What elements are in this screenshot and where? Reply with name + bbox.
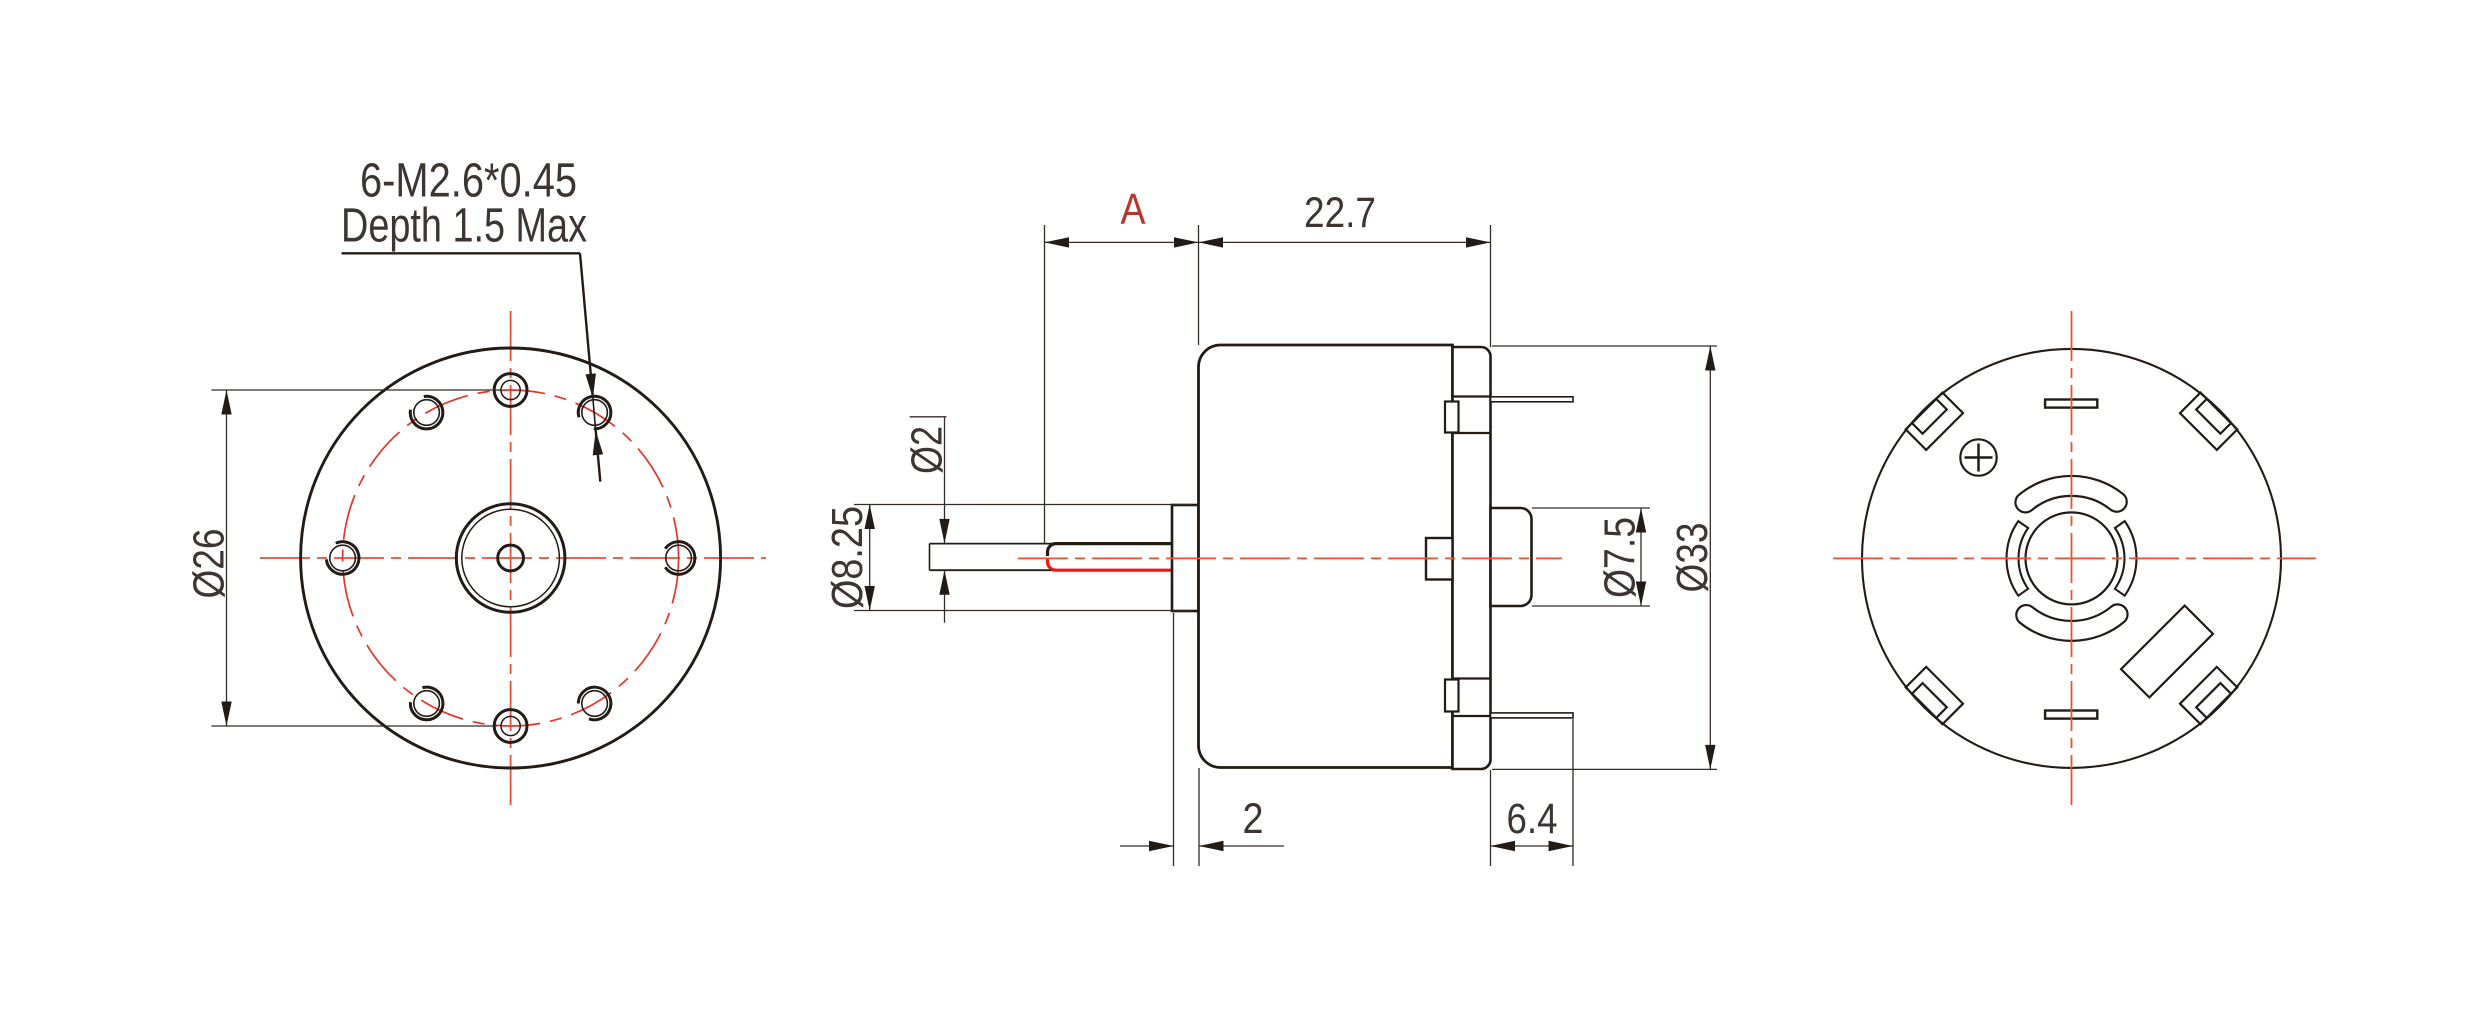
brush window slot top [2015, 476, 2126, 512]
dim 6.4 extension right [1572, 719, 1574, 866]
front hub inner circle [462, 509, 560, 607]
dim 2 dimension line right [1199, 845, 1284, 847]
dim Ø26 dimension line [226, 390, 228, 726]
shaft circle [498, 545, 524, 571]
dim Ø7.5 dimension line [1640, 508, 1642, 606]
top pilot hole [494, 374, 527, 407]
brush window slot bottom [2016, 604, 2127, 640]
polarity plus marker [1960, 439, 1996, 475]
svg-text:Ø7.5: Ø7.5 [1596, 517, 1645, 598]
stator clip at 45 deg [2180, 393, 2237, 450]
tapped hole M2.6 at 120 deg [410, 396, 443, 429]
rear view vertical center line [2071, 311, 2073, 807]
dim Ø7.5 extension top [1532, 507, 1650, 509]
terminal window rectangle [2121, 606, 2213, 698]
dim 6.4 dimension line [1491, 845, 1574, 847]
cap clip tab top [1445, 402, 1459, 433]
cap clip tab bottom [1445, 680, 1459, 712]
tapped hole M2.6 at 0 deg [665, 542, 695, 575]
side view horizontal center line [1018, 557, 1562, 559]
vent slot bottom [2045, 711, 2097, 719]
svg-text:Ø33: Ø33 [1668, 523, 1717, 593]
bearing retainer arc right [2115, 521, 2137, 596]
rear end cap [1453, 347, 1491, 769]
rear cover outline circle [1862, 349, 2281, 768]
motor front outline circle Ø33 [301, 348, 721, 768]
shaft top line [930, 543, 1173, 545]
dim Ø2 tick [910, 416, 947, 418]
dim Ø26 extension line bottom [211, 725, 497, 727]
dim 2 extension right [1198, 768, 1200, 866]
cap seam line bottom a [1453, 677, 1491, 679]
terminal pin bottom [1491, 713, 1574, 718]
bolt circle (red dashed, Ø26) [343, 390, 679, 726]
dim Ø26 extension line top [211, 389, 500, 391]
svg-text:Ø2: Ø2 [903, 426, 952, 474]
dim 22.7 extension line right [1490, 225, 1492, 347]
dim A dimension line [1045, 241, 1199, 243]
note underline [342, 252, 581, 254]
internal bearing rect [1426, 538, 1453, 580]
dim Ø7.5 extension bottom [1532, 605, 1650, 607]
motor body [1199, 345, 1453, 768]
dim Ø8.25 extension bottom [854, 610, 1192, 612]
svg-text:22.7: 22.7 [1304, 189, 1376, 237]
bearing retainer arc left [2007, 521, 2029, 596]
dim 2 dimension line left [1120, 845, 1174, 847]
rear bearing boss Ø7.5 [1491, 508, 1532, 606]
dim Ø8.25 dimension line [869, 505, 871, 611]
rear bearing hole [2026, 512, 2118, 604]
svg-text:A: A [1121, 185, 1147, 234]
svg-text:Depth 1.5 Max: Depth 1.5 Max [341, 200, 587, 253]
svg-text:Ø26: Ø26 [185, 529, 234, 599]
dim Ø33 extension top [1492, 345, 1717, 347]
shaft bottom line [930, 569, 1173, 571]
leader line through hole [593, 398, 596, 430]
dim 2 extension left [1173, 613, 1175, 866]
dim 6.4 extension left [1490, 770, 1492, 866]
shaft end line [929, 544, 931, 571]
dim A/22.7 shared extension line [1198, 225, 1200, 345]
dim Ø2 dimension line lower [944, 570, 946, 623]
vent slot top [2045, 400, 2097, 408]
terminal pin top [1491, 397, 1574, 402]
rear view horizontal center line [1833, 557, 2316, 559]
stator clip at 315 deg [2180, 667, 2237, 724]
cap seam line bottom b [1453, 715, 1491, 717]
tapped hole M2.6 at 60 deg [578, 396, 611, 429]
stator clip at 225 deg [1906, 667, 1963, 724]
left view vertical center line [510, 311, 512, 807]
tapped hole M2.6 at 240 deg [410, 687, 443, 720]
dim A extension line left [1044, 225, 1046, 543]
bottom pilot hole [494, 710, 527, 743]
leader line upper segment [580, 253, 593, 398]
front bearing hub Ø8.25 [1172, 505, 1199, 611]
front hub outer circle [456, 504, 565, 613]
leader line lower segment [596, 431, 601, 482]
tapped hole M2.6 at 300 deg [578, 687, 611, 720]
dim Ø33 extension bottom [1492, 768, 1717, 770]
left view horizontal center line [260, 557, 766, 559]
cap seam line top a [1453, 395, 1491, 397]
dim Ø8.25 extension top [854, 504, 1192, 506]
stator clip at 135 deg [1906, 393, 1963, 450]
shaft heavy top segment [1048, 544, 1173, 556]
dim 22.7 dimension line [1199, 241, 1491, 243]
svg-text:2: 2 [1243, 795, 1264, 843]
svg-text:Ø8.25: Ø8.25 [823, 506, 872, 609]
shaft heavy red bottom segment (length A) [1048, 559, 1173, 571]
dim Ø33 dimension line [1709, 346, 1711, 769]
cap seam line top b [1453, 432, 1491, 434]
dim Ø2 dimension line upper [944, 417, 946, 544]
svg-text:6.4: 6.4 [1507, 795, 1558, 843]
tapped hole M2.6 at 180 deg [326, 542, 359, 575]
